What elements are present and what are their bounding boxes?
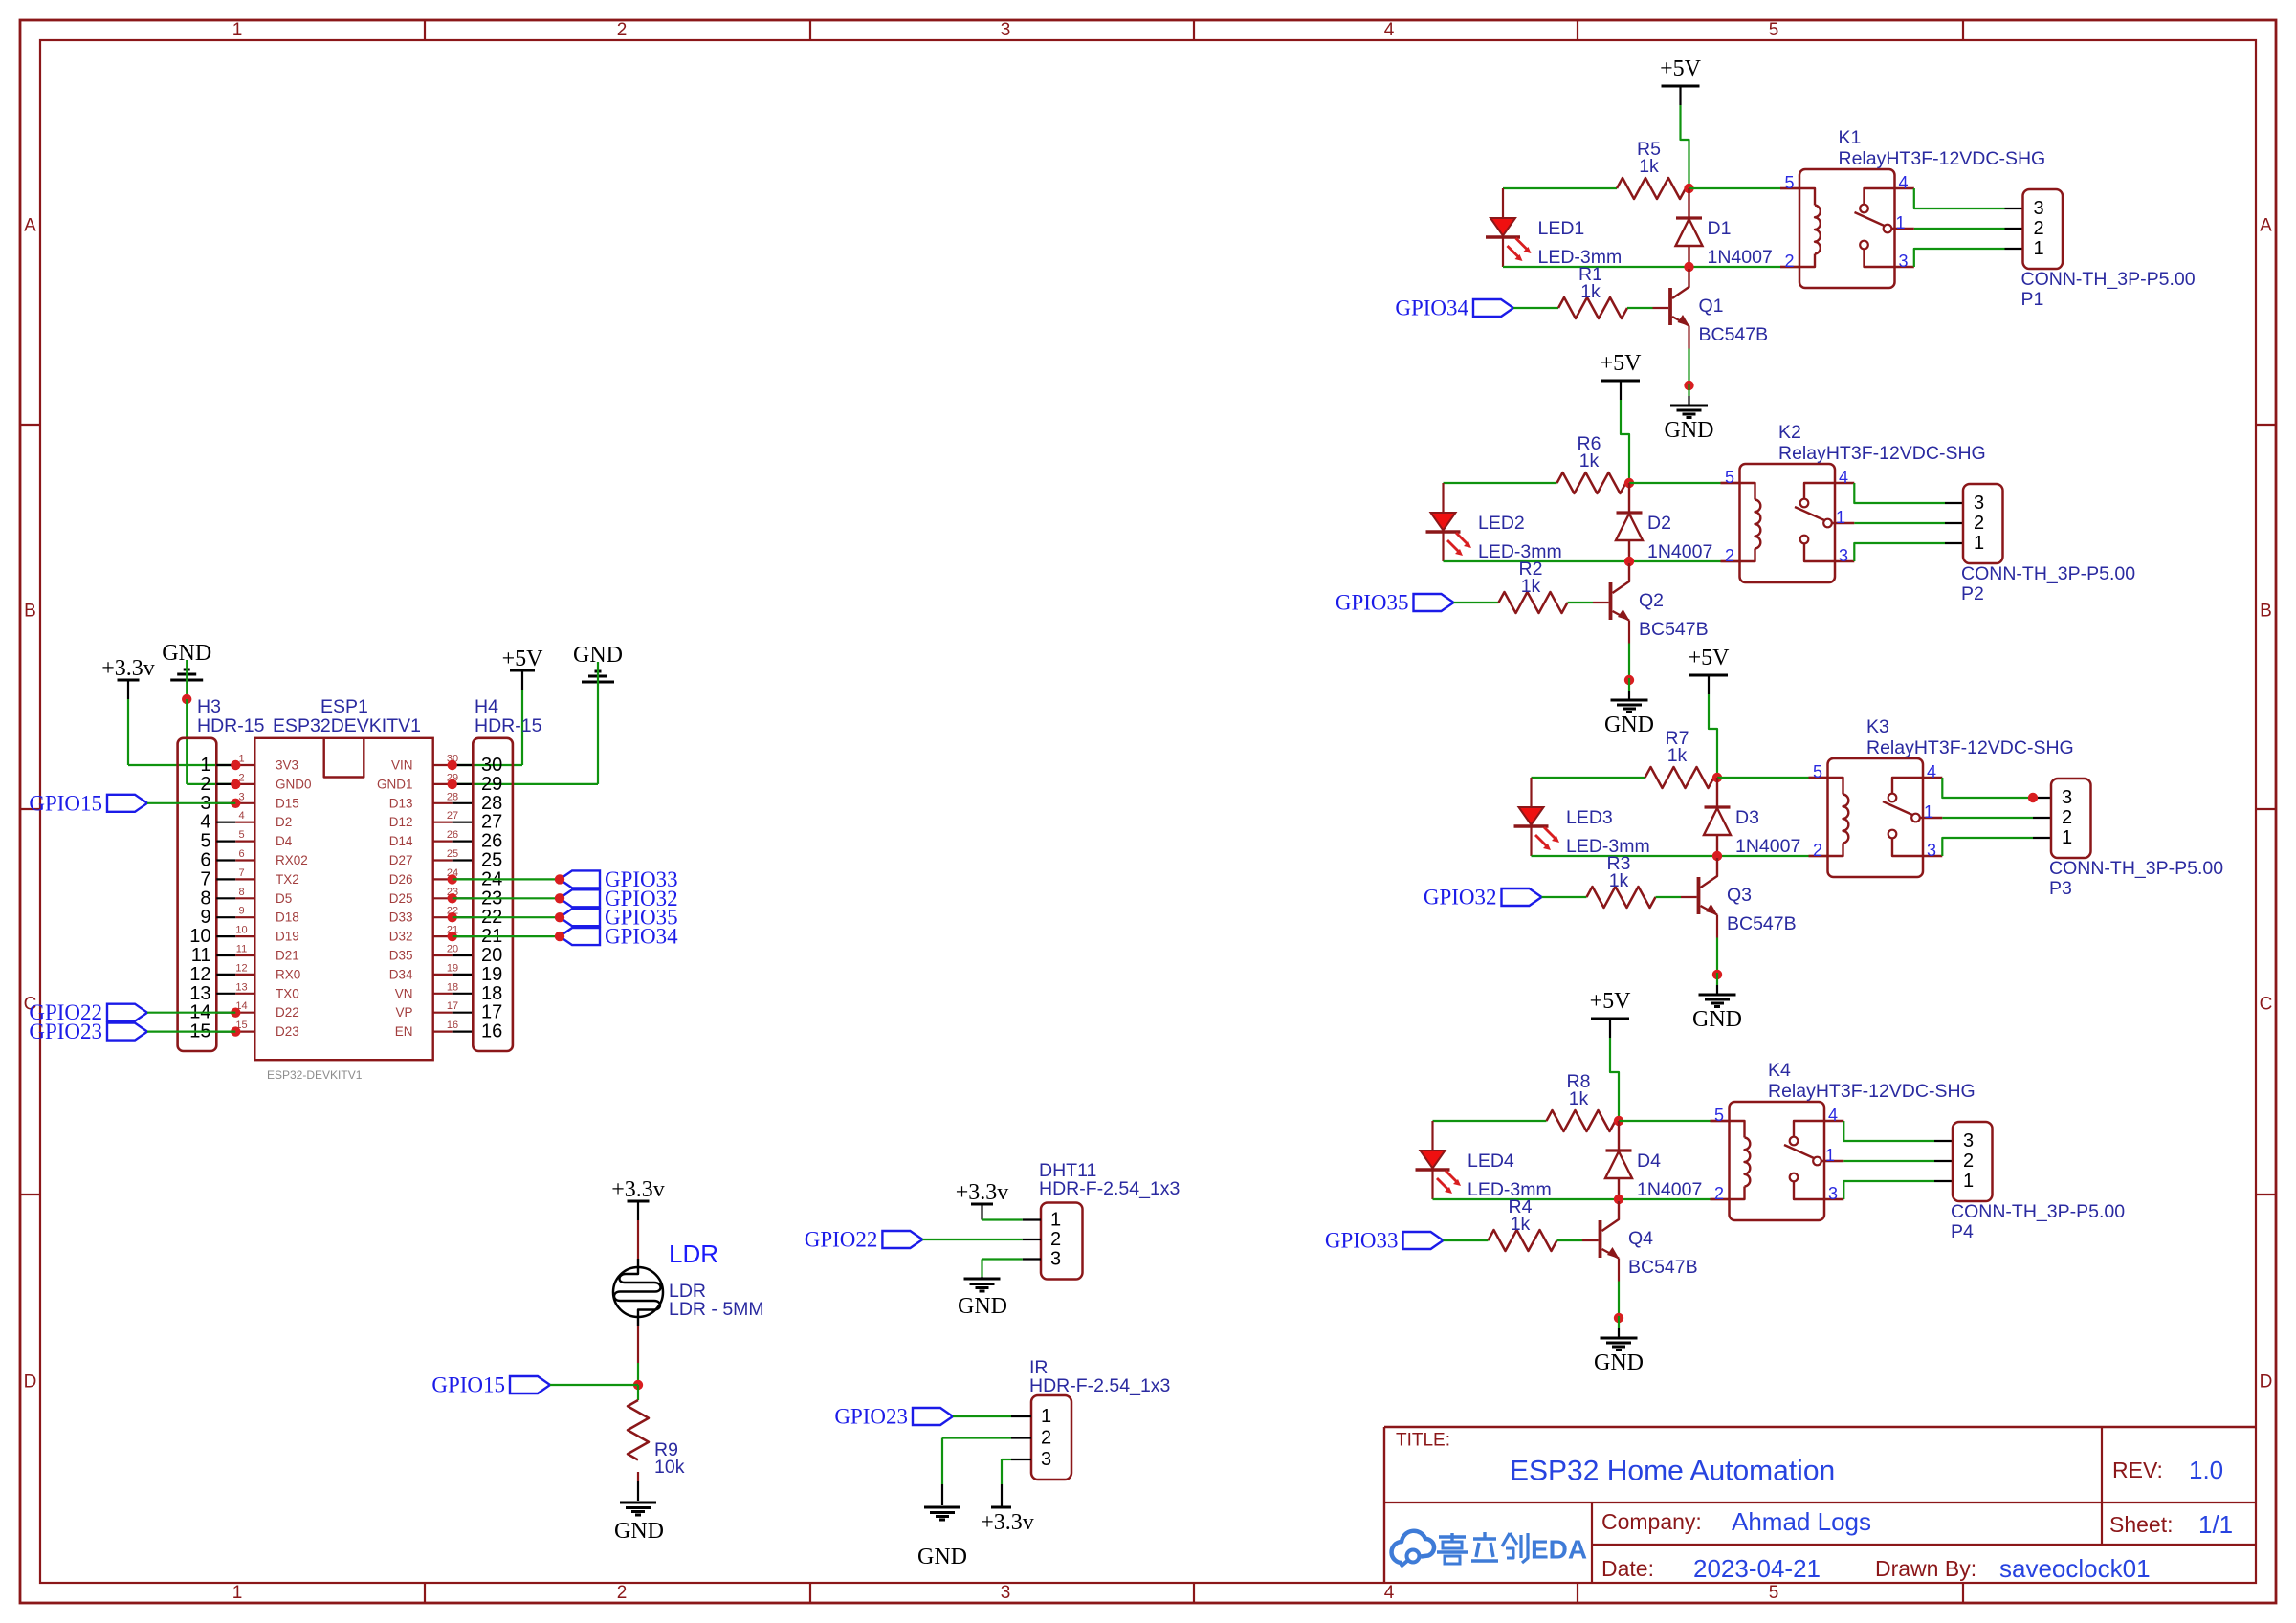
wire resistor to base xyxy=(1656,896,1697,898)
header H4 HDR-15 xyxy=(473,696,541,1051)
wire junction to relay pin5 xyxy=(1619,1120,1730,1122)
svg-text:GPIO35: GPIO35 xyxy=(1336,591,1409,615)
svg-text:+5V: +5V xyxy=(1601,351,1643,376)
svg-text:1: 1 xyxy=(1825,1146,1835,1165)
wire GND1 to pin29 xyxy=(453,699,598,784)
svg-text:20: 20 xyxy=(447,944,458,955)
svg-text:RelayHT3F-12VDC-SHG: RelayHT3F-12VDC-SHG xyxy=(1778,443,1986,464)
svg-text:VIN: VIN xyxy=(391,758,413,773)
relay switch contacts xyxy=(1784,1121,1843,1199)
node top junction xyxy=(1712,773,1722,782)
diode D3 1N4007 xyxy=(1704,778,1800,857)
wire flag to resistor xyxy=(1444,1239,1489,1241)
node GPIO15 flag at LDR xyxy=(431,1373,550,1397)
svg-text:ESP1: ESP1 xyxy=(320,696,368,717)
svg-text:D35: D35 xyxy=(389,949,413,963)
svg-text:GND1: GND1 xyxy=(377,777,413,791)
wire resistor to junction xyxy=(1686,187,1689,189)
wire emitter to ground xyxy=(1688,326,1689,386)
svg-text:+5V: +5V xyxy=(1660,56,1702,81)
relay K1 RelayHT3F-12VDC-SHG xyxy=(1799,127,2045,288)
ESP1 pin name labels xyxy=(276,758,413,1040)
svg-text:GPIO15: GPIO15 xyxy=(431,1373,505,1397)
svg-text:3: 3 xyxy=(1828,1184,1838,1203)
svg-text:D27: D27 xyxy=(389,853,413,867)
svg-text:4: 4 xyxy=(1828,1106,1838,1125)
wire R9 to ground xyxy=(637,1472,639,1501)
svg-text:GND: GND xyxy=(1692,1007,1742,1032)
svg-text:B: B xyxy=(24,602,36,622)
svg-text:BC547B: BC547B xyxy=(1639,619,1709,640)
connector DHT11 HDR-F-2.54_1x3 xyxy=(1023,1160,1181,1280)
svg-text:1k: 1k xyxy=(1639,156,1659,177)
node GPIO33 flag xyxy=(555,867,678,891)
svg-text:4: 4 xyxy=(1927,762,1936,781)
wire junction to relay pin5 xyxy=(1717,777,1828,779)
svg-text:9: 9 xyxy=(238,906,244,917)
svg-text:3: 3 xyxy=(1001,1583,1011,1603)
ground GND below IR xyxy=(917,1507,967,1569)
svg-text:BC547B: BC547B xyxy=(1628,1257,1698,1278)
svg-text:D3: D3 xyxy=(1735,807,1759,828)
ground GND below Q2 xyxy=(1604,678,1654,737)
svg-text:GND: GND xyxy=(1665,418,1714,443)
svg-text:3: 3 xyxy=(1839,546,1848,565)
svg-text:11: 11 xyxy=(236,944,247,955)
svg-text:D26: D26 xyxy=(389,872,413,887)
svg-text:16: 16 xyxy=(447,1020,458,1031)
node GPIO34 flag xyxy=(555,925,678,949)
svg-text:D23: D23 xyxy=(276,1024,299,1039)
svg-text:Date:: Date: xyxy=(1601,1556,1654,1581)
wire relay pin3 to connector xyxy=(1914,249,2023,267)
svg-text:A: A xyxy=(2260,216,2272,236)
svg-text:D1: D1 xyxy=(1708,218,1732,239)
wire resistor to base xyxy=(1557,1239,1599,1241)
svg-text:P4: P4 xyxy=(1951,1221,1974,1242)
svg-text:5: 5 xyxy=(1714,1106,1724,1125)
svg-text:1: 1 xyxy=(2034,238,2044,259)
svg-text:RelayHT3F-12VDC-SHG: RelayHT3F-12VDC-SHG xyxy=(1839,148,2046,169)
wire resistor to junction xyxy=(1626,482,1630,484)
svg-text:4: 4 xyxy=(238,810,244,822)
ground GND at H4 xyxy=(573,643,623,699)
svg-text:1: 1 xyxy=(2062,827,2072,848)
pin junction dots xyxy=(231,760,457,1037)
wire +5V rail xyxy=(1709,694,1717,778)
resistor R2 1k xyxy=(1499,559,1568,613)
diode D1 1N4007 xyxy=(1676,188,1773,268)
svg-text:Q3: Q3 xyxy=(1727,885,1752,906)
svg-text:26: 26 xyxy=(447,829,458,841)
svg-text:17: 17 xyxy=(447,1000,458,1012)
svg-text:4: 4 xyxy=(1384,1583,1395,1603)
svg-text:2: 2 xyxy=(2034,218,2044,239)
svg-text:2: 2 xyxy=(1813,841,1822,860)
transistor Q4 BC547B xyxy=(1601,1201,1698,1278)
svg-text:1k: 1k xyxy=(1609,870,1629,891)
svg-text:VP: VP xyxy=(395,1005,412,1020)
node GPIO32 flag xyxy=(1424,886,1542,910)
svg-text:TITLE:: TITLE: xyxy=(1396,1431,1450,1451)
wire top rail left xyxy=(1444,482,1557,484)
svg-text:1: 1 xyxy=(1963,1171,1974,1192)
svg-text:25: 25 xyxy=(447,848,458,860)
resistor R1 1k xyxy=(1558,264,1627,318)
wire relay pin1 to connector xyxy=(1854,522,1963,524)
wire bottom rail xyxy=(1444,560,1740,562)
svg-text:20: 20 xyxy=(481,945,502,966)
wire resistor to base xyxy=(1627,307,1668,309)
svg-text:1: 1 xyxy=(1896,213,1906,232)
svg-text:2: 2 xyxy=(2062,807,2072,828)
wire relay pin3 to connector xyxy=(1843,1181,1953,1199)
svg-text:D12: D12 xyxy=(389,815,413,829)
svg-text:4: 4 xyxy=(1899,173,1909,192)
relay K4 RelayHT3F-12VDC-SHG xyxy=(1730,1060,1976,1220)
title text xyxy=(1396,1431,2233,1584)
node GPIO23 flag at IR xyxy=(834,1405,953,1429)
svg-text:3: 3 xyxy=(1974,493,1984,514)
svg-text:GPIO34: GPIO34 xyxy=(605,925,678,949)
svg-text:6: 6 xyxy=(238,848,244,860)
power +3.3v for DHT11 xyxy=(956,1180,1009,1220)
svg-text:CONN-TH_3P-P5.00: CONN-TH_3P-P5.00 xyxy=(1961,563,2135,584)
wire relay pin4 to connector xyxy=(1843,1121,1953,1141)
wire GPIO15 to pin3 xyxy=(147,802,235,804)
wire bottom rail xyxy=(1503,266,1799,268)
svg-text:3V3: 3V3 xyxy=(276,758,298,773)
svg-text:2: 2 xyxy=(1725,546,1734,565)
svg-text:LDR: LDR xyxy=(669,1239,718,1268)
svg-text:2: 2 xyxy=(617,1583,628,1603)
LED LED4 LED-3mm xyxy=(1416,1121,1552,1200)
svg-text:HDR-15: HDR-15 xyxy=(197,715,265,736)
wire GPIO23 to IR pin1 xyxy=(953,1415,1011,1417)
wire +5V rail xyxy=(1610,1038,1619,1121)
svg-text:3: 3 xyxy=(1899,252,1909,271)
svg-text:saveoclock01: saveoclock01 xyxy=(1999,1554,2151,1583)
svg-text:28: 28 xyxy=(447,791,458,802)
svg-text:18: 18 xyxy=(447,981,458,993)
power +5V at H4 xyxy=(502,647,544,690)
svg-text:2: 2 xyxy=(1963,1151,1974,1172)
svg-text:3: 3 xyxy=(1050,1249,1061,1270)
svg-text:GND: GND xyxy=(614,1519,664,1544)
wire +3.3v to DHT pin1 xyxy=(982,1218,1023,1220)
connector IR HDR-F-2.54_1x3 xyxy=(1011,1357,1170,1480)
svg-text:8: 8 xyxy=(238,887,244,898)
svg-text:Q1: Q1 xyxy=(1699,296,1724,317)
wire junction to R9 xyxy=(637,1385,639,1400)
svg-text:5: 5 xyxy=(1725,468,1734,487)
LED LED2 LED-3mm xyxy=(1426,483,1562,562)
relay coil xyxy=(1809,778,1849,856)
LED LED3 LED-3mm xyxy=(1514,778,1650,857)
svg-text:C: C xyxy=(2260,995,2273,1015)
transistor Q1 BC547B xyxy=(1670,269,1768,345)
svg-text:GPIO15: GPIO15 xyxy=(29,791,102,815)
node LDR junction xyxy=(633,1380,643,1390)
node GPIO33 flag xyxy=(1325,1229,1444,1253)
svg-text:Sheet:: Sheet: xyxy=(2109,1512,2174,1537)
resistor R7 1k xyxy=(1645,728,1714,788)
wire resistor to junction xyxy=(1616,1120,1620,1122)
resistor R8 1k xyxy=(1547,1071,1616,1131)
svg-text:RelayHT3F-12VDC-SHG: RelayHT3F-12VDC-SHG xyxy=(1768,1081,1976,1102)
svg-text:Q2: Q2 xyxy=(1639,590,1664,611)
svg-text:28: 28 xyxy=(481,793,502,814)
wire relay pin4 to connector xyxy=(1914,188,2023,208)
wire +3.3v to LDR xyxy=(637,1220,639,1259)
svg-text:4: 4 xyxy=(1839,468,1848,487)
power +5V for K4 xyxy=(1590,989,1632,1038)
node top junction xyxy=(1624,478,1634,488)
svg-text:ESP32-DEVKITV1: ESP32-DEVKITV1 xyxy=(267,1068,363,1082)
svg-text:5: 5 xyxy=(1784,173,1794,192)
svg-text:LDR - 5MM: LDR - 5MM xyxy=(669,1299,764,1320)
svg-text:D22: D22 xyxy=(276,1005,299,1020)
svg-text:1: 1 xyxy=(232,1583,243,1603)
ground GND top-left xyxy=(162,641,211,699)
svg-text:25: 25 xyxy=(481,850,502,871)
svg-text:1: 1 xyxy=(1041,1406,1051,1427)
node emitter junction xyxy=(1684,381,1693,390)
svg-text:2: 2 xyxy=(1714,1184,1724,1203)
relay switch contacts xyxy=(1795,483,1854,561)
power +3.3v xyxy=(101,656,155,699)
node GPIO22 flag at DHT xyxy=(805,1228,923,1252)
svg-text:D13: D13 xyxy=(389,796,413,810)
svg-text:GPIO33: GPIO33 xyxy=(1325,1229,1399,1253)
wire LDR to junction xyxy=(637,1326,639,1385)
wire relay pin3 to connector xyxy=(1854,543,1963,561)
wire +5V rail xyxy=(1621,400,1629,483)
relay switch contacts xyxy=(1883,778,1942,856)
wire flag to resistor xyxy=(1454,602,1499,603)
wire GPIO23 to pin15 xyxy=(147,1030,235,1032)
svg-text:1/1: 1/1 xyxy=(2198,1510,2233,1539)
svg-text:Company:: Company: xyxy=(1601,1509,1702,1534)
svg-text:9: 9 xyxy=(200,907,210,928)
svg-text:CONN-TH_3P-P5.00: CONN-TH_3P-P5.00 xyxy=(2021,269,2196,290)
power +5V for K1 xyxy=(1660,56,1702,105)
svg-text:Q4: Q4 xyxy=(1628,1228,1653,1249)
svg-text:BC547B: BC547B xyxy=(1727,913,1797,934)
wire DHT pin3 to ground xyxy=(982,1260,1023,1280)
connector P2 CONN-TH_3P-P5.00 xyxy=(1961,484,2135,604)
svg-text:2023-04-21: 2023-04-21 xyxy=(1693,1554,1821,1583)
wire IR pin3 to +3.3v xyxy=(1002,1459,1011,1507)
svg-text:5: 5 xyxy=(1769,20,1779,40)
svg-text:D2: D2 xyxy=(1647,513,1671,534)
svg-text:D33: D33 xyxy=(389,910,413,925)
logo JLC EDA xyxy=(1392,1531,1588,1567)
relay coil xyxy=(1711,1121,1751,1199)
relay K2 RelayHT3F-12VDC-SHG xyxy=(1740,422,1986,582)
svg-text:2: 2 xyxy=(617,20,628,40)
svg-text:D2: D2 xyxy=(276,815,292,829)
svg-text:1N4007: 1N4007 xyxy=(1637,1179,1702,1200)
node wire junction xyxy=(2028,793,2038,802)
node top junction xyxy=(1684,184,1693,193)
node junction GND xyxy=(182,694,191,704)
svg-text:RX0: RX0 xyxy=(276,967,300,981)
svg-text:K4: K4 xyxy=(1768,1060,1791,1081)
svg-text:12: 12 xyxy=(235,962,247,974)
wire emitter to ground xyxy=(1618,1259,1620,1319)
svg-text:+3.3v: +3.3v xyxy=(611,1177,665,1202)
ground GND below DHT11 xyxy=(958,1279,1007,1319)
svg-text:1N4007: 1N4007 xyxy=(1708,247,1773,268)
svg-text:EDA: EDA xyxy=(1531,1535,1587,1565)
relay pin number labels xyxy=(1813,762,1936,860)
wire top rail left xyxy=(1503,187,1617,189)
ground GND below R9 xyxy=(614,1502,664,1544)
diode D4 1N4007 xyxy=(1605,1121,1702,1200)
transistor Q3 BC547B xyxy=(1699,858,1797,934)
svg-text:5: 5 xyxy=(1813,762,1822,781)
wire +3.3v to pin1 xyxy=(128,699,235,765)
svg-text:H3: H3 xyxy=(197,696,221,717)
wire +5V to pin30 xyxy=(453,690,522,765)
svg-text:16: 16 xyxy=(481,1021,502,1042)
svg-text:H4: H4 xyxy=(475,696,498,717)
svg-text:1k: 1k xyxy=(1667,745,1688,766)
svg-text:3: 3 xyxy=(1001,20,1011,40)
svg-text:1k: 1k xyxy=(1569,1088,1589,1109)
svg-text:HDR-F-2.54_1x3: HDR-F-2.54_1x3 xyxy=(1039,1178,1180,1199)
svg-text:B: B xyxy=(2260,602,2272,622)
svg-text:P3: P3 xyxy=(2049,878,2072,899)
svg-text:2: 2 xyxy=(200,774,210,795)
svg-text:12: 12 xyxy=(189,964,210,985)
node GPIO34 flag xyxy=(1395,296,1513,320)
LED LED1 LED-3mm xyxy=(1486,188,1622,268)
svg-text:4: 4 xyxy=(1384,20,1395,40)
relay pin number labels xyxy=(1784,173,1908,271)
svg-text:+3.3v: +3.3v xyxy=(956,1180,1009,1205)
svg-text:D34: D34 xyxy=(389,967,413,981)
svg-text:2: 2 xyxy=(1041,1428,1051,1449)
connector P4 CONN-TH_3P-P5.00 xyxy=(1951,1122,2125,1242)
node GPIO32 flag xyxy=(555,887,678,910)
svg-text:1: 1 xyxy=(200,755,210,776)
svg-text:D: D xyxy=(2260,1372,2273,1393)
power +3.3v for LDR xyxy=(611,1177,665,1220)
svg-text:29: 29 xyxy=(481,774,502,795)
wire GPIO35 to pin22 xyxy=(453,916,560,918)
svg-text:GPIO34: GPIO34 xyxy=(1395,296,1468,320)
svg-text:RX02: RX02 xyxy=(276,853,308,867)
svg-text:GND: GND xyxy=(1594,1350,1644,1375)
relay pin number labels xyxy=(1714,1106,1838,1203)
node emitter junction xyxy=(1624,675,1634,685)
svg-text:K2: K2 xyxy=(1778,422,1801,443)
wire emitter to ground xyxy=(1628,621,1630,681)
svg-text:4: 4 xyxy=(200,812,210,833)
svg-text:GND: GND xyxy=(917,1545,967,1569)
svg-text:D32: D32 xyxy=(389,930,413,944)
node GPIO22 flag at pin14 xyxy=(29,1000,147,1024)
svg-text:19: 19 xyxy=(447,962,458,974)
svg-text:1: 1 xyxy=(1974,533,1984,554)
svg-text:LED2: LED2 xyxy=(1478,513,1525,534)
wire GPIO22 to DHT pin2 xyxy=(922,1239,1022,1240)
svg-text:HDR-15: HDR-15 xyxy=(475,715,542,736)
wire top rail left xyxy=(1532,777,1645,779)
svg-text:D25: D25 xyxy=(389,891,413,906)
svg-text:HDR-F-2.54_1x3: HDR-F-2.54_1x3 xyxy=(1029,1375,1170,1396)
svg-text:1k: 1k xyxy=(1511,1214,1531,1235)
node bottom junction xyxy=(1712,851,1722,861)
svg-text:1N4007: 1N4007 xyxy=(1735,836,1800,857)
svg-text:27: 27 xyxy=(447,810,458,822)
svg-text:CONN-TH_3P-P5.00: CONN-TH_3P-P5.00 xyxy=(1951,1201,2125,1222)
svg-text:13: 13 xyxy=(235,981,247,993)
wire bottom rail xyxy=(1433,1198,1730,1200)
svg-text:30: 30 xyxy=(481,755,502,776)
svg-text:D4: D4 xyxy=(1637,1151,1661,1172)
svg-text:1: 1 xyxy=(232,20,243,40)
svg-text:13: 13 xyxy=(189,983,210,1004)
svg-text:GND0: GND0 xyxy=(276,777,312,791)
node bottom junction xyxy=(1684,262,1693,272)
svg-text:8: 8 xyxy=(200,888,210,909)
diode D2 1N4007 xyxy=(1616,483,1712,562)
svg-text:BC547B: BC547B xyxy=(1699,324,1769,345)
relay coil xyxy=(1721,483,1761,561)
node GPIO23 flag at pin15 xyxy=(29,1020,147,1043)
connector P1 CONN-TH_3P-P5.00 xyxy=(2021,189,2196,310)
ground GND below Q3 xyxy=(1692,973,1742,1032)
svg-text:D15: D15 xyxy=(276,796,299,810)
header H3 HDR-15 xyxy=(178,696,265,1051)
svg-text:ESP32 Home Automation: ESP32 Home Automation xyxy=(1510,1456,1835,1487)
svg-text:2: 2 xyxy=(1784,252,1794,271)
wire relay pin4 to connector xyxy=(1854,483,1963,503)
svg-text:3: 3 xyxy=(2062,787,2072,808)
svg-text:1: 1 xyxy=(1924,802,1933,822)
svg-text:3: 3 xyxy=(1927,841,1936,860)
header H3 pins xyxy=(189,754,254,1042)
svg-text:3: 3 xyxy=(2034,198,2044,219)
wire flag to resistor xyxy=(1542,896,1587,898)
svg-text:10: 10 xyxy=(189,926,210,947)
wire GPIO34 to pin21 xyxy=(453,935,560,937)
svg-text:EN: EN xyxy=(395,1024,413,1039)
svg-text:TX0: TX0 xyxy=(276,986,299,1000)
svg-text:1.0: 1.0 xyxy=(2189,1456,2223,1484)
svg-text:LED3: LED3 xyxy=(1566,807,1613,828)
svg-text:ESP32DEVKITV1: ESP32DEVKITV1 xyxy=(273,715,421,736)
svg-text:D14: D14 xyxy=(389,834,413,848)
svg-text:1: 1 xyxy=(1836,508,1845,527)
ground GND below Q1 xyxy=(1665,384,1714,443)
wire +5V rail xyxy=(1681,105,1689,188)
wire relay pin3 to connector xyxy=(1942,838,2051,856)
svg-text:GPIO32: GPIO32 xyxy=(1424,886,1497,910)
svg-text:GPIO23: GPIO23 xyxy=(834,1405,908,1429)
svg-text:D18: D18 xyxy=(276,910,299,925)
svg-text:TX2: TX2 xyxy=(276,872,299,887)
wire relay pin1 to connector xyxy=(1942,817,2051,819)
node GPIO15 flag at pin3 xyxy=(29,791,147,815)
svg-text:D19: D19 xyxy=(276,930,299,944)
svg-text:K3: K3 xyxy=(1866,716,1889,737)
wire GPIO22 to pin14 xyxy=(147,1012,235,1014)
svg-text:17: 17 xyxy=(481,1002,502,1023)
